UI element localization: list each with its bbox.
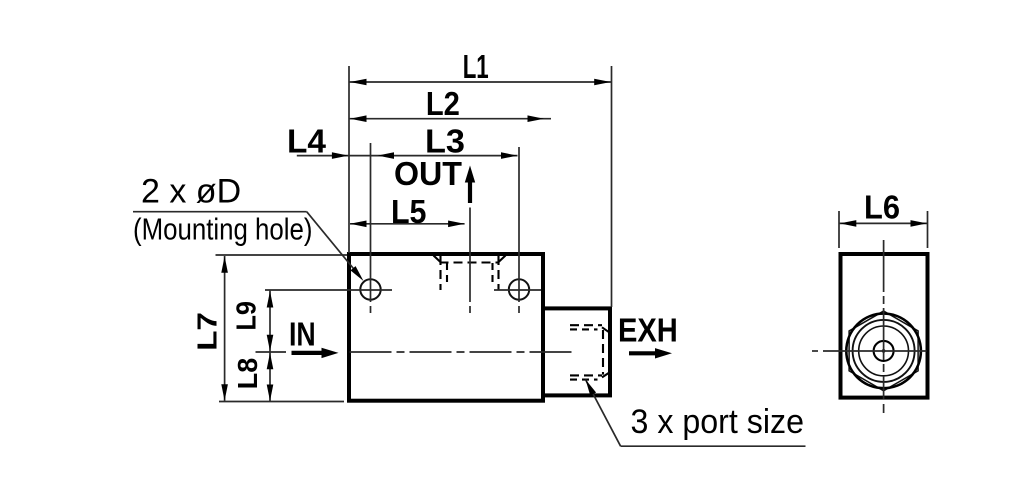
- thread outer dashed left: [439, 256, 441, 290]
- L7/L8 bottom extension line: [219, 401, 344, 403]
- hole right centerline vertical: [518, 147, 520, 302]
- svg-text:2 x øD: 2 x øD: [141, 173, 241, 211]
- svg-text:L2: L2: [426, 85, 460, 122]
- L7 top extension line: [216, 254, 348, 256]
- extension line block right: [611, 66, 613, 307]
- mounting hole right: [509, 279, 529, 299]
- main body outline: [349, 254, 543, 401]
- dimension L1 line: [349, 81, 612, 83]
- L3 left arrow: [378, 152, 395, 159]
- dimension L7 line: [224, 256, 226, 401]
- OUT flow arrow: [468, 176, 472, 203]
- side view horizontal centerline: [812, 350, 818, 352]
- main horizontal centerline left segment: [256, 351, 287, 353]
- svg-text:OUT: OUT: [394, 155, 462, 192]
- dimension L5 line: [350, 223, 465, 225]
- L4 arrow: [332, 152, 349, 159]
- thread lower outer dashed: [570, 379, 598, 381]
- svg-text:L1: L1: [463, 48, 489, 85]
- thread inner dashed left: [446, 263, 448, 284]
- EXH port hidden lines (right block): [570, 325, 609, 379]
- side view body outline: [841, 254, 928, 398]
- chamfer top: [602, 327, 609, 332]
- extension line body left: [348, 66, 350, 253]
- svg-text:EXH: EXH: [618, 312, 678, 349]
- hole left centerline horizontal / L9 extension: [265, 289, 392, 291]
- svg-text:L9: L9: [231, 301, 262, 331]
- hex boss: [849, 311, 918, 391]
- port bore circle: [874, 341, 894, 361]
- center dot: [882, 349, 886, 353]
- svg-text:(Mounting hole): (Mounting hole): [133, 212, 313, 247]
- chamfer bottom: [602, 373, 609, 378]
- hole left centerline vertical: [370, 143, 372, 302]
- mounting hole left: [360, 279, 380, 299]
- leader 2 x oD underline: [133, 211, 307, 213]
- dimension L6 line: [839, 222, 928, 224]
- svg-text:L4: L4: [287, 122, 327, 159]
- dimension L4/L3 line: [297, 155, 518, 157]
- svg-text:L5: L5: [391, 193, 427, 230]
- leader 2 x oD diagonal: [307, 212, 360, 277]
- thread depth dashed vertical: [602, 330, 604, 375]
- L6 extension lines: [838, 211, 840, 248]
- svg-text:L8: L8: [232, 358, 263, 390]
- hole right centerline horizontal: [494, 289, 541, 291]
- port thread circle: [859, 326, 909, 376]
- svg-text:L6: L6: [864, 188, 900, 225]
- thread upper outer dashed: [570, 324, 602, 326]
- thread upper inner dashed: [570, 328, 598, 330]
- counterbore dashed horizontal: [440, 261, 500, 263]
- svg-text:L7: L7: [192, 312, 223, 351]
- EXH flow arrow: [629, 351, 655, 355]
- OUT port hidden lines (top of body): [434, 256, 506, 291]
- svg-text:L3: L3: [425, 122, 465, 159]
- thread outer dashed right: [497, 256, 499, 290]
- IN flow arrow: [292, 351, 323, 355]
- dimension L9/L8 line: [269, 291, 271, 402]
- svg-text:3 x port size: 3 x port size: [631, 403, 805, 441]
- thread lower inner dashed: [570, 374, 602, 376]
- chamfer right: [498, 256, 506, 264]
- svg-text:IN: IN: [289, 315, 316, 352]
- main horizontal centerline through body: [350, 351, 573, 353]
- thread inner dashed right: [491, 263, 493, 284]
- chamfer circle: [846, 314, 921, 389]
- EXH port block outline: [543, 308, 610, 395]
- OUT port centerline vertical: [469, 208, 471, 303]
- dimension L2 line: [349, 118, 551, 120]
- port outer circle: [853, 320, 915, 382]
- chamfer left: [434, 256, 442, 264]
- leader 3 x port size: [586, 380, 621, 447]
- L3 right arrow: [501, 152, 518, 159]
- side view vertical centerline: [883, 240, 885, 399]
